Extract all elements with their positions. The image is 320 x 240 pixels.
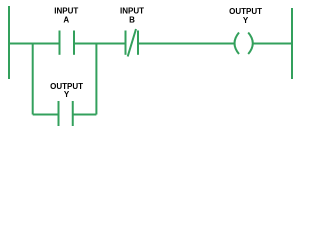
svg-text:A: A bbox=[63, 15, 69, 24]
svg-text:Y: Y bbox=[243, 16, 249, 25]
svg-text:INPUT: INPUT bbox=[120, 7, 144, 16]
svg-text:Y: Y bbox=[64, 90, 70, 99]
svg-text:INPUT: INPUT bbox=[54, 7, 78, 16]
svg-text:B: B bbox=[129, 15, 135, 24]
svg-text:OUTPUT: OUTPUT bbox=[229, 7, 262, 16]
